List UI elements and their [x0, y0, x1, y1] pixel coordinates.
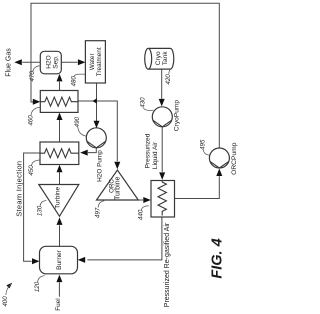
svg-text:Liquid Air: Liquid Air: [152, 141, 159, 169]
svg-text:420: 420: [165, 74, 172, 85]
svg-text:ORCPump: ORCPump: [231, 142, 238, 175]
svg-text:Flue Gas: Flue Gas: [5, 48, 12, 77]
svg-text:490: 490: [74, 116, 81, 127]
svg-text:120: 120: [34, 281, 41, 292]
svg-text:CryoPump: CryoPump: [174, 100, 181, 131]
svg-text:497: 497: [94, 207, 101, 218]
svg-text:Turbine: Turbine: [115, 176, 122, 200]
svg-text:Burner: Burner: [56, 249, 63, 270]
svg-text:Fuel: Fuel: [55, 298, 62, 310]
svg-text:495: 495: [200, 139, 207, 150]
svg-text:450: 450: [28, 165, 35, 176]
svg-text:H2O Pump: H2O Pump: [97, 150, 104, 182]
svg-text:430: 430: [140, 97, 147, 108]
svg-text:Treatment: Treatment: [96, 47, 103, 76]
svg-text:470: 470: [29, 71, 36, 82]
svg-text:460: 460: [28, 115, 35, 126]
svg-text:440: 440: [138, 209, 145, 220]
svg-text:FIG. 4: FIG. 4: [210, 238, 226, 278]
svg-text:Turbine: Turbine: [55, 186, 62, 208]
svg-text:Pressurized Re-gasified Air: Pressurized Re-gasified Air: [164, 222, 171, 307]
svg-text:Sep.: Sep.: [53, 55, 60, 69]
svg-text:130: 130: [37, 205, 44, 216]
svg-text:Tank: Tank: [162, 51, 169, 66]
svg-text:480: 480: [70, 76, 77, 87]
svg-text:Steam Injection: Steam Injection: [14, 161, 23, 217]
svg-text:Pressurized: Pressurized: [145, 133, 152, 168]
svg-text:400: 400: [2, 296, 9, 307]
